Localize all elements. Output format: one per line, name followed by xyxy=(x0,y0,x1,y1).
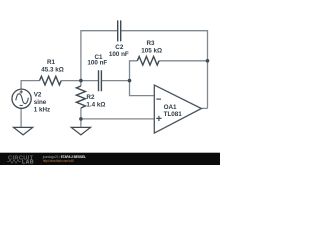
svg-text:sine: sine xyxy=(34,99,47,106)
op-amp OA1 xyxy=(154,85,201,133)
node B xyxy=(128,79,132,83)
svg-text:1 kHz: 1 kHz xyxy=(34,107,50,114)
wire V2 bottom to ground xyxy=(20,108,22,127)
svg-text:105 kΩ: 105 kΩ xyxy=(141,47,162,54)
watermark bar xyxy=(0,153,220,165)
svg-text:R1: R1 xyxy=(47,59,56,66)
svg-text:V2: V2 xyxy=(34,92,42,99)
ground (R2 / non-inverting) xyxy=(71,127,90,134)
wire node A down through R2 top xyxy=(80,81,82,86)
svg-text:LAB: LAB xyxy=(22,159,34,165)
wire ground node to non-inverting input xyxy=(81,118,154,120)
svg-text:R2: R2 xyxy=(86,94,95,101)
wire R3 right to right rail xyxy=(159,60,208,62)
svg-text:OA1: OA1 xyxy=(164,104,177,111)
wire R2 bottom to ground node xyxy=(80,108,82,127)
wire top rail right of C2 to right rail down xyxy=(121,31,207,109)
source V2 xyxy=(12,89,31,108)
node ground/+ xyxy=(79,117,83,121)
capacitor C1 xyxy=(99,70,102,91)
node A xyxy=(79,79,83,83)
wire C1 right to node B xyxy=(102,80,130,82)
svg-text:TL081: TL081 xyxy=(164,111,183,118)
svg-text:R3: R3 xyxy=(146,40,155,47)
node output/R3 xyxy=(206,59,210,63)
capacitor C2 xyxy=(118,20,121,41)
wire node A up to top rail xyxy=(81,31,118,81)
svg-text:1.4 kΩ: 1.4 kΩ xyxy=(86,101,105,108)
wire R1 right to node A to C1 xyxy=(61,80,98,82)
wire op-amp output xyxy=(201,107,207,109)
wire node B down to inverting input xyxy=(130,81,155,96)
svg-text:45.3 kΩ: 45.3 kΩ xyxy=(41,66,64,73)
svg-text:100 nF: 100 nF xyxy=(109,51,129,58)
resistor R2 xyxy=(76,86,85,108)
svg-text:http://circuitlab.com/c48: http://circuitlab.com/c48 xyxy=(43,159,74,163)
resistor R3 xyxy=(137,57,159,66)
wire node B up to R3 xyxy=(130,61,138,81)
wire V2 top to R1 xyxy=(21,81,39,90)
ground (V2) xyxy=(14,127,33,134)
svg-text:100 nF: 100 nF xyxy=(87,59,107,66)
resistor R1 xyxy=(40,76,62,85)
